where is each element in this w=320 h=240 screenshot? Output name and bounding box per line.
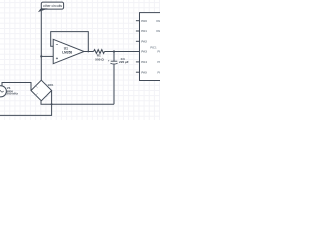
svg-text:PIC1: PIC1 bbox=[150, 45, 157, 49]
svg-text:PB: PB bbox=[157, 60, 160, 64]
svg-text:RB1: RB1 bbox=[156, 29, 160, 33]
svg-text:RB0: RB0 bbox=[156, 19, 160, 23]
svg-text:220 µF: 220 µF bbox=[119, 60, 129, 64]
svg-text:PB: PB bbox=[157, 70, 160, 74]
svg-text:LM358: LM358 bbox=[62, 50, 72, 54]
svg-text:200 kHz: 200 kHz bbox=[6, 92, 18, 96]
svg-text:BR1: BR1 bbox=[48, 83, 54, 87]
svg-text:PA0: PA0 bbox=[141, 19, 147, 23]
svg-text:PA5: PA5 bbox=[141, 70, 147, 74]
svg-text:PA4: PA4 bbox=[141, 60, 147, 64]
svg-text:PA1: PA1 bbox=[141, 29, 147, 33]
svg-text:PB: PB bbox=[157, 50, 160, 54]
svg-text:+: + bbox=[108, 59, 110, 63]
svg-text:other circuits: other circuits bbox=[43, 4, 63, 8]
svg-text:500 Ω: 500 Ω bbox=[95, 57, 104, 61]
svg-text:PA3: PA3 bbox=[141, 50, 147, 54]
svg-text:PA2: PA2 bbox=[141, 39, 147, 43]
